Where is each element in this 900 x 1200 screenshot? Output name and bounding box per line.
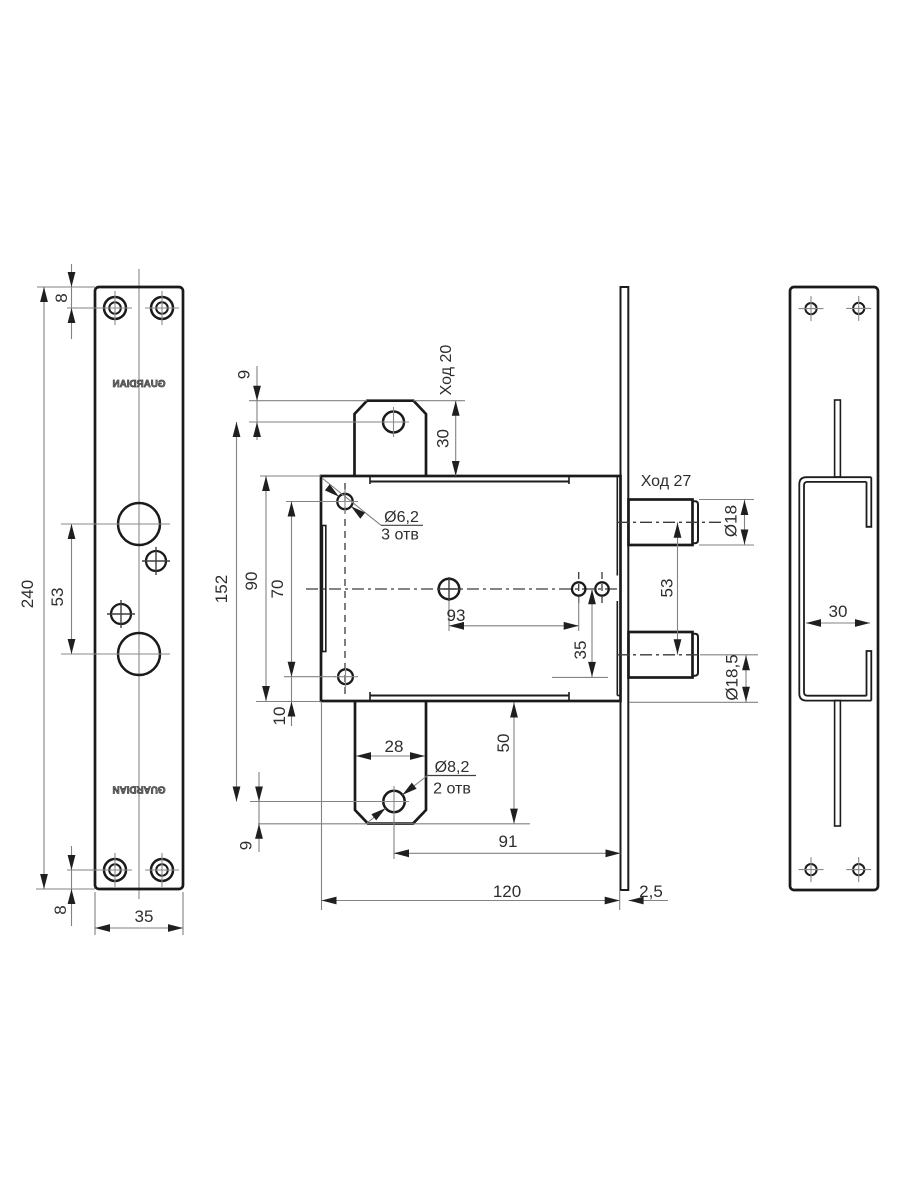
extension lines for 120 [322,703,620,910]
key hole right pair - left [572,572,585,606]
dimension 240 (overall plate height) [18,287,95,889]
svg-text:90: 90 [242,572,261,591]
svg-text:53: 53 [658,579,677,598]
leader and label d8.2 2 holes [367,759,476,823]
svg-text:93: 93 [447,606,466,625]
left faceplate vertical centerline [138,269,140,899]
left faceplate outline [95,287,183,889]
dimension 90 (body height) [242,476,321,702]
svg-text:35: 35 [571,641,590,660]
dimension 53 (cylinder hole spacing, left view) [48,524,75,654]
extension line tab bottom [258,823,530,825]
svg-text:30: 30 [829,602,848,621]
dimension 28 (bottom tab width) [356,737,425,760]
left faceplate top-right screw hole [145,291,179,325]
svg-text:GUARDIAN: GUARDIAN [113,784,166,795]
dimension 30 (top tab height) [414,401,466,476]
top inner flange line [370,477,569,484]
upper deadbolt [629,500,699,546]
left inner flange (edge) [322,526,325,652]
dimension 2,5 (faceplate thickness) [629,882,668,904]
vertical axis through corner holes [344,483,346,694]
right inner flange (edge) [617,477,620,696]
extension line below bottom tab hole [393,817,395,859]
strike plate lower slot [835,701,841,827]
key hole right pair - right [595,572,608,606]
dimension 8 (bottom hole offset) [51,846,99,926]
dimension d18 (upper bolt diameter) [722,500,749,546]
corner hole lower (d6.2) [334,664,358,690]
svg-text:8: 8 [51,905,70,914]
faceplate edge view (2.5 thick plate) [621,287,629,890]
svg-text:8: 8 [52,293,71,302]
svg-text:30: 30 [434,429,453,448]
strike plate top-left screw hole [799,296,824,321]
left faceplate small fixing hole upper [142,547,170,575]
strike box outer contour [799,477,871,700]
svg-text:120: 120 [493,882,521,901]
dimension 53 (bolt spacing) [658,522,682,655]
lower deadbolt axis [617,654,758,656]
left faceplate top-left screw hole [98,291,132,325]
svg-text:35: 35 [135,907,154,926]
dimension 91 (tab hole to faceplate) [394,832,621,857]
dimension 35 (key hole to bolt bottom) [552,589,608,677]
dimension 120 (body length) [322,882,620,904]
centerline of lower cylinder hole [61,653,170,655]
svg-text:Ø18: Ø18 [722,505,741,537]
lock body outline [321,476,621,701]
svg-text:3 отв: 3 отв [381,527,419,544]
svg-text:152: 152 [212,575,231,603]
left faceplate small fixing hole lower [107,600,135,628]
label Hod 20 (stroke 20) [438,345,455,396]
strike box bottom-right lip [867,651,872,701]
strike plate top-right screw hole [846,296,871,321]
svg-text:50: 50 [494,734,513,753]
strike plate outline [790,287,878,890]
svg-text:Ø8,2: Ø8,2 [435,759,470,776]
GUARDIAN stamp top (mirrored) [113,379,166,390]
centerline of upper cylinder hole [61,523,170,525]
dimension 50 (body bottom to tab hole line) [494,703,518,824]
svg-text:GUARDIAN: GUARDIAN [113,379,166,390]
top tab hole [378,407,409,437]
left faceplate bottom-right screw hole [145,853,179,887]
horizontal centre axis of body [306,588,621,590]
strike box top-right lip [867,477,872,527]
centre hole (spindle) [437,577,461,601]
extension lines upper bolt diameter [699,500,754,546]
svg-text:91: 91 [499,832,518,851]
bottom inner flange line [370,692,569,700]
strike plate bottom-left screw hole [799,857,824,882]
dimension 9 (top tab hole offset) [235,366,380,440]
svg-text:2,5: 2,5 [639,882,663,901]
leader and label d6.2 3 holes [322,478,423,544]
svg-text:240: 240 [18,580,37,608]
dimension 93 (centre hole to key holes) [447,597,579,631]
dimension 70 (corner hole spacing) [268,502,336,727]
dimension 9 (bottom tab hole offset) [237,772,381,852]
svg-text:9: 9 [237,841,256,850]
svg-text:10: 10 [270,707,289,726]
svg-text:28: 28 [385,737,404,756]
strike box inner contour [804,482,867,696]
dimension d18,5 (lower bolt diameter) [723,654,750,702]
extension line lower bolt bottom [629,701,758,703]
upper deadbolt axis [617,521,722,523]
dimension 8 (top hole offset) [52,264,99,339]
svg-text:9: 9 [235,370,254,379]
dimension 30 (strike box width) [806,602,870,627]
svg-text:70: 70 [268,580,287,599]
strike plate upper slot [835,400,841,477]
GUARDIAN stamp bottom (rotated 180) [113,784,166,795]
lower deadbolt [629,632,699,678]
svg-text:Ход 20: Ход 20 [438,345,455,396]
svg-text:53: 53 [48,588,67,607]
top mounting tab [355,401,427,476]
dimension 35 (plate width) [95,892,183,935]
svg-text:Ø18,5: Ø18,5 [723,654,742,700]
svg-text:2 отв: 2 отв [433,781,471,798]
label Hod 27 (stroke 27) [641,473,692,490]
dimension 152 (tab hole to tab hole) [212,422,240,802]
svg-text:Ø6,2: Ø6,2 [384,509,419,526]
bottom mounting tab [355,701,426,824]
left faceplate bottom-left screw hole [98,853,132,887]
strike plate bottom-right screw hole [846,857,871,882]
bottom tab hole [379,786,409,817]
left faceplate upper cylinder hole [118,503,160,545]
dimension 10 (corner hole to body bottom) [270,702,295,726]
left faceplate lower cylinder hole [118,633,160,675]
svg-text:Ход 27: Ход 27 [641,473,692,490]
corner hole upper (d6.2) [333,489,358,514]
